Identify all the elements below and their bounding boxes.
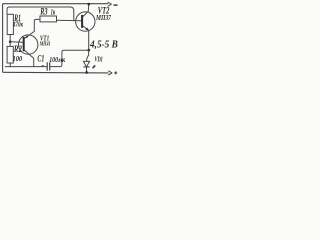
resistor R2 — [7, 46, 13, 63]
wire R2 bottom lead — [9, 63, 11, 67]
wire bottom rail (plus output) — [3, 71, 109, 74]
transistor VT2 collector — [83, 4, 89, 16]
node B (VT2 collector / top rail junction) — [87, 3, 90, 6]
svg-text:470к: 470к — [12, 19, 23, 28]
transistor VT2 base bar — [81, 15, 83, 28]
transistor VT2 emitter — [83, 26, 89, 50]
node A (R1/R2/VT1 base junction) — [9, 40, 12, 43]
wire R1 bottom lead — [9, 35, 11, 42]
diode VD1 (zener) — [83, 61, 89, 66]
transistor VT1 base bar — [23, 37, 25, 51]
svg-text:МП37: МП37 — [95, 13, 111, 22]
wire R3 right lead to VT2 base — [57, 19, 82, 22]
resistor R3 — [40, 16, 57, 22]
svg-text:1к: 1к — [51, 7, 56, 16]
transistor VT1 body — [19, 35, 38, 54]
svg-text:100: 100 — [13, 54, 23, 63]
svg-text:C1: C1 — [37, 53, 44, 63]
node C (emitter/C1/VD1 junction) — [87, 49, 90, 52]
wire bottom node wire to C1 — [5, 66, 47, 68]
transistor VT2 body — [76, 12, 95, 31]
top output arrowhead — [108, 2, 112, 6]
node D (VD1 / bottom rail junction) — [85, 71, 88, 74]
wire emitter node to VD1 — [87, 50, 89, 61]
C1 plus polarity mark — [42, 65, 44, 67]
wire VT1 base — [10, 41, 23, 44]
transistor VT1 collector — [25, 50, 34, 66]
svg-text:4,5-5 В: 4,5-5 В — [89, 39, 118, 51]
svg-text:МП41: МП41 — [39, 41, 51, 47]
transistor VT1 emitter arrow — [25, 36, 28, 39]
diode VD1 zener tick — [93, 65, 96, 68]
wire R2 top lead — [9, 42, 11, 47]
wire top rail (minus output) — [3, 3, 109, 5]
minus terminal sign — [114, 4, 118, 5]
svg-text:VD1: VD1 — [95, 55, 103, 64]
wire C1 to emitter node — [50, 50, 88, 66]
wire VD1 bottom lead — [86, 67, 88, 73]
svg-text:R2: R2 — [13, 44, 22, 54]
capacitor C1 — [47, 62, 50, 70]
transistor VT2 emitter arrow — [85, 27, 88, 30]
resistor R1 — [7, 14, 13, 34]
bottom output arrowhead — [108, 71, 112, 75]
svg-text:100мк: 100мк — [49, 55, 66, 64]
plus terminal sign — [114, 71, 117, 74]
svg-text:R3: R3 — [40, 8, 48, 18]
wire inner top line (R1 top to VT2 base node) — [7, 7, 74, 20]
wire left rail — [2, 4, 4, 73]
transistor VT1 emitter — [25, 19, 40, 38]
